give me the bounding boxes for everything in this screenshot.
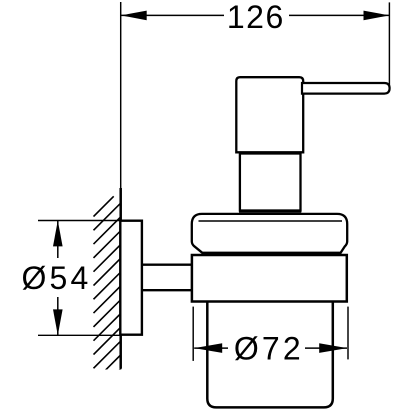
extension line 72 left xyxy=(192,307,194,361)
extension line 72 right xyxy=(347,307,349,360)
glass tumbler xyxy=(207,302,332,408)
extension line right of 126 xyxy=(388,2,390,90)
neck base line xyxy=(239,210,301,213)
arrow left of 126 xyxy=(121,11,147,21)
spout xyxy=(302,83,390,94)
dimension line 72 xyxy=(194,347,347,349)
arrow up of 54 xyxy=(53,221,63,247)
svg-text:126: 126 xyxy=(227,0,285,35)
svg-text:Ø72: Ø72 xyxy=(234,331,304,367)
wall plate xyxy=(120,221,142,335)
arrow left of 72 xyxy=(194,343,222,353)
dimension line 126 xyxy=(121,14,389,16)
wall cut line xyxy=(119,188,122,369)
holder ring xyxy=(192,255,347,302)
wall hatching xyxy=(94,196,122,396)
mounting arm xyxy=(142,264,192,266)
cap accent line xyxy=(199,220,343,222)
pump head xyxy=(236,77,303,152)
svg-text:Ø54: Ø54 xyxy=(21,260,91,296)
arrow right of 126 xyxy=(364,11,390,21)
extension line 54 top xyxy=(38,220,120,222)
dimension line 54 xyxy=(57,221,59,335)
pump neck xyxy=(240,154,301,211)
arrow down of 54 xyxy=(53,309,63,335)
extension line 54 bottom xyxy=(38,334,120,336)
dispenser cap xyxy=(192,214,347,253)
wall extension line (thin, top) xyxy=(120,2,122,189)
arrow right of 72 xyxy=(319,343,347,353)
